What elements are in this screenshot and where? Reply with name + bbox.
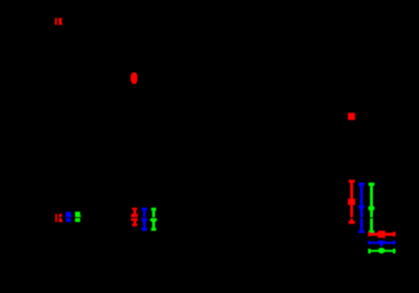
black plot frame: left axis line crossing points A and D1 — [57, 0, 59, 293]
red data point E1 (square with vertical error bar) — [131, 208, 138, 227]
blue data point D2 (triangle marker with small error bar) — [65, 212, 72, 222]
red data point D1 (bottom-left, on left axis) — [55, 214, 62, 222]
red data point A (top-left, on left axis) — [55, 18, 62, 25]
red data point G1 (square with horizontal error bar) — [368, 231, 396, 238]
blue data point G2 (triangle-down with horizontal error bar) — [368, 241, 395, 248]
green data point D3 (circle marker with small error bar) — [75, 212, 81, 222]
red data point C (square marker) — [348, 113, 355, 120]
green data point F3 (circle, long error bar) — [368, 183, 375, 233]
red data point B (square with small vertical error bar) — [131, 73, 138, 84]
blue data point E2 (triangle-down with vertical error bar) — [141, 208, 148, 231]
black plot frame: bottom axis / curve crossing D,E,F clusters — [58, 217, 419, 219]
red data point F1 (square, long error bar, arrow at bottom) — [348, 180, 355, 224]
blue data point F2 (triangle-down, long error bar) — [358, 183, 365, 233]
green data point G3 (circle with horizontal error bar) — [368, 248, 396, 254]
green data point E3 (circle with vertical error bar) — [150, 208, 157, 231]
